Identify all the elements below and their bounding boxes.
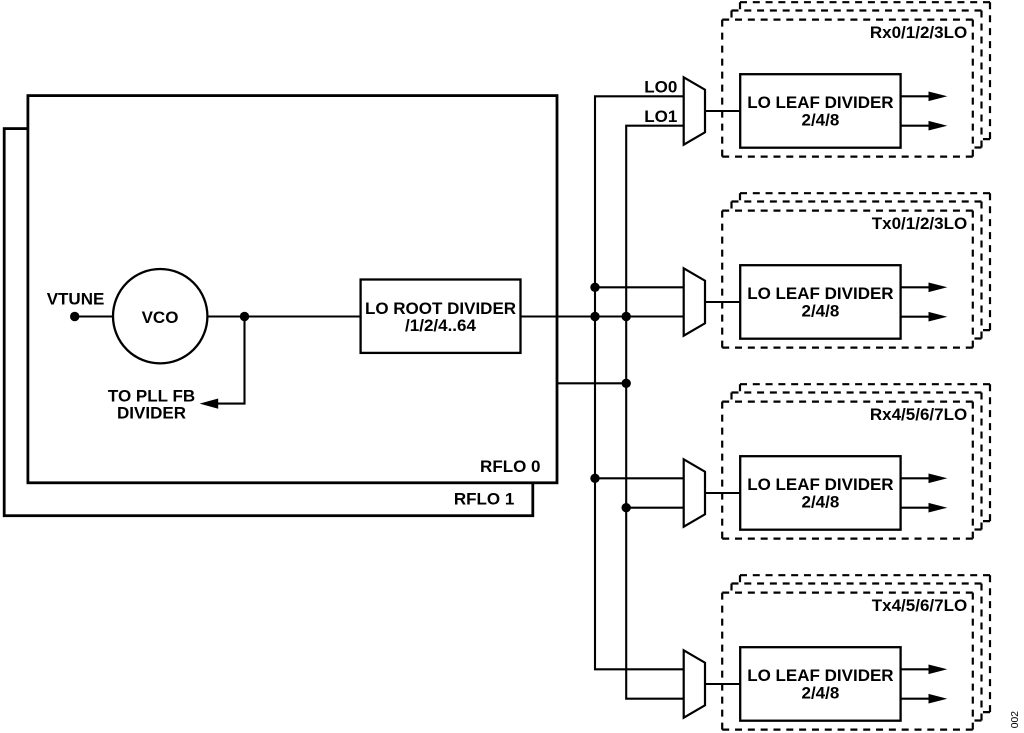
arrowhead LO output 2b (929, 312, 948, 322)
wire mux M3 output (705, 492, 740, 494)
wire VTUNE to LO root divider (75, 315, 361, 317)
wire LO output 3a (900, 477, 930, 479)
svg-text:LO1: LO1 (644, 107, 677, 126)
svg-text:Tx4/5/6/7LO: Tx4/5/6/7LO (872, 596, 967, 615)
wire LO output 2b (900, 316, 930, 318)
svg-text:Rx0/1/2/3LO: Rx0/1/2/3LO (870, 23, 967, 42)
wire LO output 3b (900, 507, 930, 509)
wire LO output 4a (900, 668, 930, 670)
wire to PLL FB divider (216, 317, 245, 404)
LO root divider block (361, 280, 521, 353)
wire RFLO 0 second LO output (557, 382, 626, 384)
svg-text:Rx4/5/6/7LO: Rx4/5/6/7LO (870, 405, 967, 424)
wire mux M4 output (705, 683, 740, 685)
RFLO 1 chip outline (4, 129, 533, 516)
svg-text:LO LEAF DIVIDER: LO LEAF DIVIDER (747, 284, 893, 303)
wire LO output 1b (900, 125, 930, 127)
arrowhead to PLL FB divider (200, 399, 219, 409)
svg-text:Tx0/1/2/3LO: Tx0/1/2/3LO (872, 214, 967, 233)
wire mux M1 output (705, 110, 740, 112)
dashed bank Rx4/5/6/7LO back sheet (740, 384, 990, 521)
dashed bank Rx0/1/2/3LO back sheet (740, 2, 990, 139)
svg-text:DIVIDER: DIVIDER (117, 404, 186, 423)
arrowhead LO output 4b (929, 694, 948, 704)
wire LO0 bus (595, 96, 685, 669)
wire mux M2 output (705, 301, 740, 303)
LO leaf divider block 3 (740, 456, 900, 530)
wire LO root divider output (521, 315, 685, 317)
svg-text:VCO: VCO (142, 308, 179, 327)
arrowhead LO output 2a (929, 283, 948, 293)
svg-text:002: 002 (1010, 711, 1021, 728)
VCO U1 (113, 269, 207, 363)
svg-text:/1/2/4..64: /1/2/4..64 (405, 316, 476, 335)
dashed bank Rx0/1/2/3LO middle sheet (732, 11, 982, 148)
dashed bank Rx4/5/6/7LO middle sheet (732, 393, 982, 530)
arrowhead LO output 1b (929, 121, 948, 131)
dashed bank Tx4/5/6/7LO front sheet (722, 593, 973, 730)
arrowhead LO output 3b (929, 503, 948, 513)
dashed bank Rx4/5/6/7LO front sheet (722, 402, 973, 539)
svg-text:RFLO 1: RFLO 1 (454, 490, 514, 509)
dashed bank Rx0/1/2/3LO front sheet (722, 20, 973, 157)
wire LO1 bus (626, 126, 685, 699)
LO leaf divider block 1 (740, 74, 900, 148)
node LO0/mux3 junction (590, 474, 599, 483)
node VCO output junction (240, 312, 249, 321)
svg-text:2/4/8: 2/4/8 (801, 302, 839, 321)
wire LO0 branch to mux 3 (595, 477, 685, 479)
svg-text:2/4/8: 2/4/8 (801, 684, 839, 703)
dashed bank Tx0/1/2/3LO front sheet (722, 211, 973, 348)
mux M1 (684, 77, 705, 144)
node root output/LO1 junction (622, 312, 631, 321)
svg-text:2/4/8: 2/4/8 (801, 111, 839, 130)
arrowhead LO output 4a (929, 665, 948, 675)
wire LO output 4b (900, 698, 930, 700)
wire LO output 1a (900, 95, 930, 97)
LO leaf divider block 2 (740, 265, 900, 339)
wire LO1 branch to mux 3 (626, 507, 685, 509)
svg-text:LO0: LO0 (644, 77, 677, 96)
mux M4 (684, 650, 705, 717)
LO leaf divider block 4 (740, 647, 900, 721)
arrowhead LO output 3a (929, 474, 948, 484)
node LO1/mux3 junction (622, 503, 631, 512)
svg-text:LO LEAF DIVIDER: LO LEAF DIVIDER (747, 666, 893, 685)
node LO0/mux2 junction (590, 283, 599, 292)
arrowhead LO output 1a (929, 92, 948, 102)
svg-text:LO LEAF DIVIDER: LO LEAF DIVIDER (747, 93, 893, 112)
svg-text:2/4/8: 2/4/8 (801, 493, 839, 512)
svg-text:LO LEAF DIVIDER: LO LEAF DIVIDER (747, 475, 893, 494)
svg-text:RFLO 0: RFLO 0 (480, 457, 540, 476)
wire LO0 branch to mux 2 (595, 286, 685, 288)
wire LO output 2a (900, 286, 930, 288)
RFLO 0 chip outline (28, 96, 557, 483)
dashed bank Tx0/1/2/3LO middle sheet (732, 202, 982, 339)
dashed bank Tx4/5/6/7LO middle sheet (732, 584, 982, 721)
node second output/LO1 junction (622, 379, 631, 388)
dashed bank Tx0/1/2/3LO back sheet (740, 193, 990, 330)
dashed bank Tx4/5/6/7LO back sheet (740, 575, 990, 712)
mux M2 (684, 268, 705, 335)
svg-text:VTUNE: VTUNE (47, 289, 105, 308)
node root output/LO0 junction (590, 312, 599, 321)
mux M3 (684, 459, 705, 526)
